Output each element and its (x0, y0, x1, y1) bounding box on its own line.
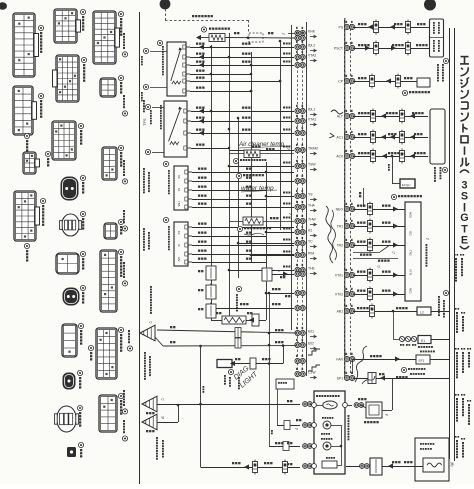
E1 feed vertical (393, 311, 395, 339)
svg-text:K2: K2 (308, 229, 312, 233)
svg-text:E2: E2 (177, 231, 181, 235)
node E01 y=333 (295, 330, 300, 335)
dashed verticals left connector column (297, 30, 299, 372)
bus line E x=266 (266, 162, 268, 320)
svg-text:IG1: IG1 (409, 231, 413, 236)
node pin y=65 (295, 62, 300, 67)
node pin y=38 (295, 35, 300, 40)
svg-text:*1: *1 (277, 269, 280, 273)
svg-text:THW: THW (308, 218, 317, 222)
exit wire label 7 (123, 420, 125, 422)
turbo box (326, 457, 328, 459)
power steering computer box (430, 19, 444, 57)
connector B3 (52, 121, 76, 160)
solid vertical left of left column (291, 25, 293, 330)
bus line A x=211 (211, 45, 213, 320)
connector B11 (67, 447, 76, 457)
TRAM wire (229, 150, 294, 152)
AC1 icon (329, 133, 334, 138)
inline connector on ground wire 1 (235, 328, 241, 338)
wire row PS (353, 27, 429, 29)
meter edge pins speed row (312, 403, 317, 408)
node VTA1 y=121 (295, 118, 300, 123)
inline connector on ground wire 2 (235, 338, 241, 348)
node PSCT (344, 45, 349, 50)
node C1W y=374 (295, 371, 300, 376)
computer label right (348, 415, 350, 417)
connector label 5 (81, 57, 86, 62)
wire row FAN (353, 359, 416, 361)
ground point 3 (142, 414, 157, 430)
node PIM y=255 (295, 252, 300, 257)
SP1 drop (352, 359, 354, 374)
sensor1 wires to ECU (190, 47, 294, 49)
svg-text:TBA: TBA (177, 201, 181, 207)
handwriting scrawl right (355, 346, 367, 382)
svg-text:AC1: AC1 (336, 135, 343, 139)
svg-text:E01: E01 (308, 330, 314, 334)
speed sensor label (316, 395, 318, 397)
svg-text:*5: *5 (385, 413, 388, 417)
connector C1 (93, 11, 116, 64)
ground point 2 (142, 396, 157, 412)
solenoid label (236, 286, 241, 291)
air conditioner amp box (430, 109, 445, 164)
svg-text:PSCT: PSCT (334, 46, 343, 50)
EF1 box cooling fan (416, 355, 430, 364)
C1W coil icon (308, 365, 320, 371)
wire row PSCT (353, 48, 429, 50)
connector label 22 (24, 133, 29, 138)
connector label 23 (24, 243, 29, 248)
speed path to ECU (382, 410, 392, 412)
svg-text:NE0: NE0 (409, 212, 413, 218)
connector B5 (62, 214, 79, 236)
connector B9 (63, 373, 75, 389)
connector label 6 (78, 123, 83, 128)
exit wire label 5 (128, 330, 130, 332)
connector label 8 (80, 211, 85, 216)
svg-text:VT02: VT02 (335, 292, 343, 296)
exit wire label 0 (123, 33, 125, 35)
svg-text:TFS: TFS (142, 118, 147, 126)
shield dashed verticals right connector column (344, 20, 346, 374)
wire row VT01 (353, 275, 405, 277)
node VTA2 y=57 (295, 54, 300, 59)
water temp sensor No1 label (237, 226, 242, 231)
connector A3 (14, 191, 36, 241)
node TSW y=166 (295, 163, 300, 168)
connector B10 (57, 406, 76, 432)
svg-text:*3: *3 (295, 427, 298, 431)
node pin y=133 (295, 130, 300, 135)
node K2 y=232 (295, 229, 300, 234)
bus line C x=238 (238, 118, 240, 278)
row 293 (295, 290, 300, 295)
node E02 y=345 (295, 342, 300, 347)
svg-text:VTA1: VTA1 (308, 118, 316, 122)
svg-text:KNK: KNK (308, 30, 316, 34)
E02 coil icon (308, 349, 320, 355)
speed wire meter to filter (347, 405, 352, 407)
wire row NEO (353, 209, 405, 211)
connector B4 (61, 177, 78, 200)
node TRAM y=150 (295, 147, 300, 152)
knock sensor resistor (209, 34, 225, 42)
connector label 16 (118, 75, 123, 80)
svg-text:ALT: ALT (337, 114, 343, 118)
wire row CP (353, 81, 418, 83)
svg-text:VT01: VT01 (335, 273, 343, 277)
water temp resistor (243, 217, 263, 225)
extra rows to ECU (229, 166, 294, 168)
power steering label (443, 58, 448, 63)
svg-text:E1: E1 (421, 339, 425, 343)
node YC y=243 (295, 240, 300, 245)
node TR2 (344, 242, 349, 247)
svg-text:TR1: TR1 (337, 224, 344, 228)
connector A1 (13, 13, 35, 77)
AB1 connector box (417, 307, 431, 315)
connector C3 (102, 147, 117, 180)
wire row TR1 (353, 226, 405, 228)
svg-text:TRAM: TRAM (308, 147, 318, 151)
connector label 21 (118, 393, 123, 398)
fuse box small (276, 379, 294, 389)
node YS y=196 (295, 193, 300, 198)
connector A2 (13, 86, 33, 135)
svg-text:TR2: TR2 (409, 250, 413, 256)
svg-text:AC0: AC0 (336, 154, 343, 158)
combination meter box (314, 391, 345, 474)
ABS computer label (418, 346, 420, 348)
TR loop wires (353, 252, 380, 254)
knock sensor label (201, 27, 206, 32)
svg-text:*2: *2 (377, 265, 380, 269)
svg-text:VTR: VTR (409, 269, 413, 276)
svg-text:PIM: PIM (308, 252, 314, 256)
svg-text:TSW: TSW (308, 163, 316, 167)
alternator icon (331, 110, 343, 114)
wire row TR2 (353, 245, 405, 247)
ground wires (157, 404, 300, 406)
resistor stack A (206, 266, 216, 280)
connector C6 (96, 328, 117, 379)
connector label 19 (118, 249, 123, 254)
svg-text:SP1: SP1 (337, 376, 344, 380)
node IDL1 y=111 (295, 108, 300, 113)
connector label 10 (80, 285, 85, 290)
connector label 1 (38, 25, 43, 30)
svg-text:T: T (461, 223, 468, 235)
svg-text:*2: *2 (289, 212, 292, 216)
vertical title: engine control (3S-GTE) (461, 56, 469, 58)
node KNK y=33 (295, 30, 300, 35)
wires to page-edge rule (431, 339, 449, 341)
connector label 4 (80, 9, 85, 14)
node FAN (344, 356, 349, 361)
ECQ box (400, 179, 415, 188)
node AC1 (344, 134, 349, 139)
bus line B x=229 (229, 33, 231, 316)
connector label 15 (118, 11, 123, 16)
bottom wire right of meter (346, 466, 423, 468)
resistor feed path y=320 (211, 320, 222, 322)
sensor2 wires to ECU (191, 111, 294, 113)
svg-text:NE1: NE1 (409, 288, 413, 294)
electrical load switch label (402, 90, 407, 95)
node CP (344, 78, 349, 83)
connector C5 (100, 250, 117, 312)
svg-text:CP: CP (338, 79, 343, 83)
node pin y=181 (295, 178, 300, 183)
handwriting vertical scrawl (326, 206, 333, 263)
binder hole dot left (160, 0, 171, 9)
wire row SP1 right (353, 378, 392, 380)
TCCS computer box (405, 202, 421, 301)
connector B7 (63, 288, 79, 305)
node AB1 (344, 308, 349, 313)
svg-text:*7: *7 (149, 321, 152, 325)
connector label 3 (40, 198, 45, 203)
svg-text:IC: IC (177, 244, 181, 247)
connector label 17 (118, 145, 123, 150)
svg-text:YS: YS (308, 193, 313, 197)
exit wire label 3 (123, 210, 125, 212)
connector C4 (104, 223, 117, 239)
connector A2b (23, 152, 36, 174)
wire row ALT (353, 116, 428, 118)
connector B8 (62, 324, 77, 357)
meter row turbo lamp (303, 464, 308, 469)
wire row AC1 (353, 137, 428, 139)
wire row AB1 (353, 311, 417, 313)
node SP1 (344, 375, 349, 380)
svg-text:S: S (461, 191, 468, 203)
ground point 1 (140, 325, 155, 341)
knock shield stub (288, 33, 295, 35)
meter row warning (277, 389, 279, 425)
connector C7 (99, 395, 117, 432)
FAN junction (344, 350, 346, 356)
aircon amp label (434, 167, 436, 169)
connector label 25 (88, 345, 93, 350)
svg-text:EF1: EF1 (419, 359, 425, 363)
connector label 9 (80, 251, 85, 256)
diagnosis connector box (217, 360, 232, 368)
air temp sensor No2 label (233, 158, 238, 163)
svg-text:VTA2: VTA2 (308, 54, 316, 58)
solid vertical right of left column (306, 22, 308, 376)
check engine lamp (321, 433, 323, 435)
handwriting water temp (236, 173, 241, 178)
binder hole dot right (424, 0, 436, 11)
exit wire label 6 (123, 390, 125, 392)
O2 sensor heater box (415, 438, 449, 481)
svg-text:E02: E02 (308, 342, 314, 346)
svg-text:THA: THA (308, 204, 316, 208)
cooling fan computer label (401, 367, 406, 372)
node VT01 (344, 272, 349, 277)
node VT02 (344, 291, 349, 296)
throttle position sensor box 2 TFS (164, 101, 187, 157)
throttle position sensor box 1 (167, 42, 186, 96)
wire row VT02 (353, 294, 405, 296)
svg-text:*8: *8 (161, 416, 164, 420)
bus line D x=251 (251, 52, 253, 262)
warning lamp (322, 417, 324, 419)
connector label 11 (78, 323, 83, 328)
svg-text:(B): (B) (450, 462, 454, 467)
exit wire label 4 (123, 262, 125, 264)
svg-text:G: G (460, 212, 468, 224)
svg-text:TR2: TR2 (337, 243, 344, 247)
speed sensor symbol (323, 401, 337, 409)
connector label 13 (77, 405, 82, 410)
svg-text:YC: YC (308, 240, 313, 244)
wire from diag down (269, 293, 271, 446)
svg-text:IDL2: IDL2 (308, 44, 315, 48)
shield dashed line from binder dot (165, 9, 167, 20)
right rule line inner (449, 28, 451, 459)
diagnosis label (228, 369, 233, 374)
wire color labels before ECU pins (283, 43, 285, 45)
aircon switch label (391, 194, 396, 199)
node ALT (344, 113, 349, 118)
connector label 14 (78, 442, 83, 447)
svg-text:FAN: FAN (336, 357, 343, 361)
node THA y=207 (295, 204, 300, 209)
exit wire label 1 (123, 95, 125, 97)
svg-text:*4: *4 (426, 237, 429, 241)
row 308 (295, 305, 300, 310)
wire row AC0 (353, 156, 428, 158)
knock sensor wire (196, 35, 201, 40)
connector B6 (56, 253, 79, 274)
connector B2 (56, 55, 79, 102)
svg-text:NEO: NEO (336, 207, 344, 211)
svg-text:E: E (461, 235, 468, 247)
node IDL2 y=47 (295, 44, 300, 49)
svg-text:THE: THE (308, 267, 316, 271)
schematic left-edge vertical labels (143, 168, 145, 170)
svg-text:ECQU: ECQU (402, 183, 410, 187)
exit wire label 2 (123, 160, 125, 162)
svg-text:*2: *2 (287, 147, 290, 151)
node E1 junction row (399, 336, 404, 341)
ISC valve row 274 (295, 271, 300, 276)
air temp resistor No2 (244, 150, 260, 158)
sensor4 wires (192, 227, 294, 229)
meter inner wire (331, 425, 341, 427)
svg-text:IDL1: IDL1 (308, 108, 315, 112)
right margin reference notes (454, 254, 456, 256)
wire NE riser (363, 188, 365, 207)
knock shield dashed drop (248, 20, 250, 33)
air intake AIV box (174, 222, 188, 266)
wire ECQ drop (392, 156, 394, 184)
connector label 18 (118, 219, 123, 224)
solid vertical left of right column (344, 18, 346, 378)
node THE y=270 (295, 267, 300, 272)
node pin y=361 (295, 358, 300, 363)
svg-text:PS: PS (338, 25, 343, 29)
junction dots (210, 46, 213, 49)
connector C2 (100, 78, 116, 97)
turbo pressure sensor box (174, 166, 188, 210)
svg-text:*7: *7 (161, 398, 164, 402)
connector label 7 (80, 175, 85, 180)
svg-text:L3: L3 (420, 311, 424, 315)
svg-text:S1: S1 (177, 188, 181, 192)
connector label 20 (118, 327, 123, 332)
sensor 1 left exit wires (150, 51, 167, 53)
wire diag up link (283, 346, 285, 364)
page border line left of schematic (139, 12, 141, 484)
svg-text:3: 3 (461, 179, 467, 191)
svg-text:*1: *1 (392, 251, 395, 255)
node TR1 (344, 223, 349, 228)
connector label 2 (38, 93, 43, 98)
svg-text:AB1: AB1 (337, 309, 344, 313)
right rule line outer (454, 28, 456, 461)
connector label 24 (45, 151, 50, 156)
speed filter box (366, 402, 382, 418)
meter row check engine (269, 446, 300, 448)
connector B1 (54, 9, 77, 43)
connector label 12 (77, 370, 82, 375)
bottom wire long (201, 467, 301, 469)
bus line H x=200.5 lower (200, 346, 202, 467)
bus line F x=280 (280, 41, 282, 230)
node THW y=221 (295, 218, 300, 223)
sensor3 wires (192, 172, 294, 174)
E1 box ABS (418, 336, 431, 344)
svg-text:AIV: AIV (177, 257, 181, 262)
svg-text:VC: VC (177, 175, 181, 179)
node AC0 (344, 153, 349, 158)
CP terminal box (417, 78, 430, 87)
corner mark top-left (0, 2, 7, 10)
meter row speed (303, 402, 308, 407)
node PS (344, 24, 349, 29)
node NEO (344, 206, 349, 211)
svg-text:*1: *1 (282, 32, 285, 36)
